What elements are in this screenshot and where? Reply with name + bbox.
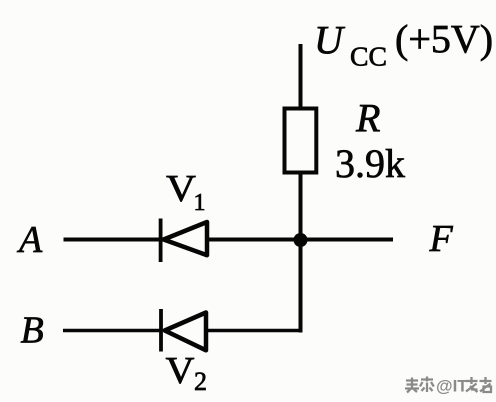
- svg-text:V: V: [166, 350, 196, 392]
- wire corner up to node: [299, 240, 303, 333]
- svg-text:(+5V): (+5V): [395, 17, 493, 62]
- diode V2: [161, 309, 206, 352]
- svg-text:2: 2: [194, 367, 207, 396]
- wire input B to diode V2: [63, 329, 161, 333]
- wire diode V1 to node: [207, 238, 301, 242]
- svg-text:V: V: [166, 168, 197, 210]
- wire resistor to node: [299, 172, 303, 242]
- svg-text:U: U: [314, 18, 346, 63]
- svg-text:3.9k: 3.9k: [335, 141, 405, 186]
- resistor R body: [285, 109, 317, 173]
- wire input A to diode V1: [64, 238, 162, 242]
- wire diode V2 to corner: [206, 329, 303, 333]
- watermark 头条@IT老者: [405, 377, 492, 396]
- svg-text:CC: CC: [350, 42, 387, 72]
- label V1: [166, 168, 206, 216]
- svg-text:1: 1: [194, 190, 206, 216]
- wire node to output F: [301, 238, 394, 242]
- svg-text:R: R: [355, 96, 380, 141]
- svg-text:B: B: [21, 310, 44, 352]
- diode V1: [161, 219, 207, 263]
- wire Ucc supply lead: [299, 44, 303, 108]
- label V2: [166, 350, 208, 396]
- svg-text:@IT: @IT: [436, 377, 468, 396]
- svg-text:A: A: [16, 219, 43, 261]
- power label UCC (+5V): [314, 17, 493, 72]
- node junction dot: [294, 233, 308, 247]
- svg-text:F: F: [429, 218, 454, 260]
